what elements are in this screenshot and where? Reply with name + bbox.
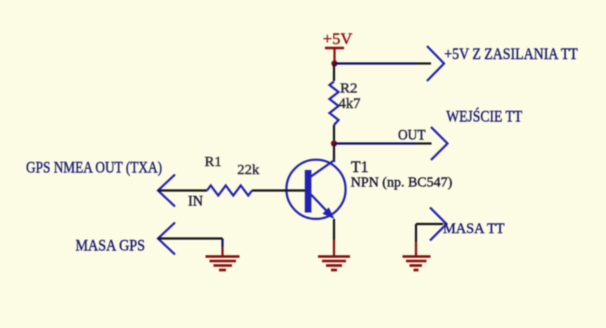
svg-text:IN: IN [188,193,204,209]
ground symbol MASA TT [403,257,431,271]
ground symbol MASA GPS [206,257,240,271]
wire base right segment [252,189,305,191]
wire +5V net horizontal [335,62,432,64]
wire collector vertical [333,144,335,163]
svg-text:+5V Z ZASILANIA TT: +5V Z ZASILANIA TT [444,46,578,63]
svg-text:WEJŚCIE TT: WEJŚCIE TT [446,107,522,126]
svg-text:MASA GPS: MASA GPS [76,238,146,255]
port arrow MASA GPS [158,223,175,255]
svg-text:T1: T1 [351,159,369,176]
wire MASA GPS horizontal [158,237,223,239]
wire MASA TT horizontal [416,223,443,225]
svg-text:22k: 22k [237,163,259,178]
wire R2 top pin [333,64,335,82]
resistor R2 [330,82,339,126]
ground symbol at emitter [318,257,350,271]
wire R2 bottom pin [333,125,335,144]
svg-text:R1: R1 [205,155,222,170]
port arrow +5V Z ZASILANIA TT [427,46,444,81]
transistor T1 [286,160,345,219]
port arrow GPS NMEA OUT (TXA) [158,175,175,207]
junction node +5V [331,60,337,66]
port arrow WEJSCIE TT [431,127,448,160]
svg-text:MASA TT: MASA TT [443,221,505,237]
svg-text:4k7: 4k7 [339,96,361,112]
wire emitter vertical [333,219,335,256]
junction node OUT [331,140,337,146]
resistor R1 [207,186,252,196]
port arrow MASA TT [430,208,447,241]
svg-text:OUT: OUT [398,128,426,144]
svg-text:NPN (np. BC547): NPN (np. BC547) [351,176,453,191]
svg-text:GPS NMEA OUT (TXA): GPS NMEA OUT (TXA) [26,160,162,177]
power +5V supply symbol [323,31,353,62]
svg-text:+5V: +5V [323,31,353,48]
wire OUT net horizontal [334,142,432,144]
wire MASA TT vertical [415,224,417,256]
svg-text:R2: R2 [340,82,358,97]
wire base left segment [158,189,207,191]
wire MASA GPS vertical [221,239,223,257]
